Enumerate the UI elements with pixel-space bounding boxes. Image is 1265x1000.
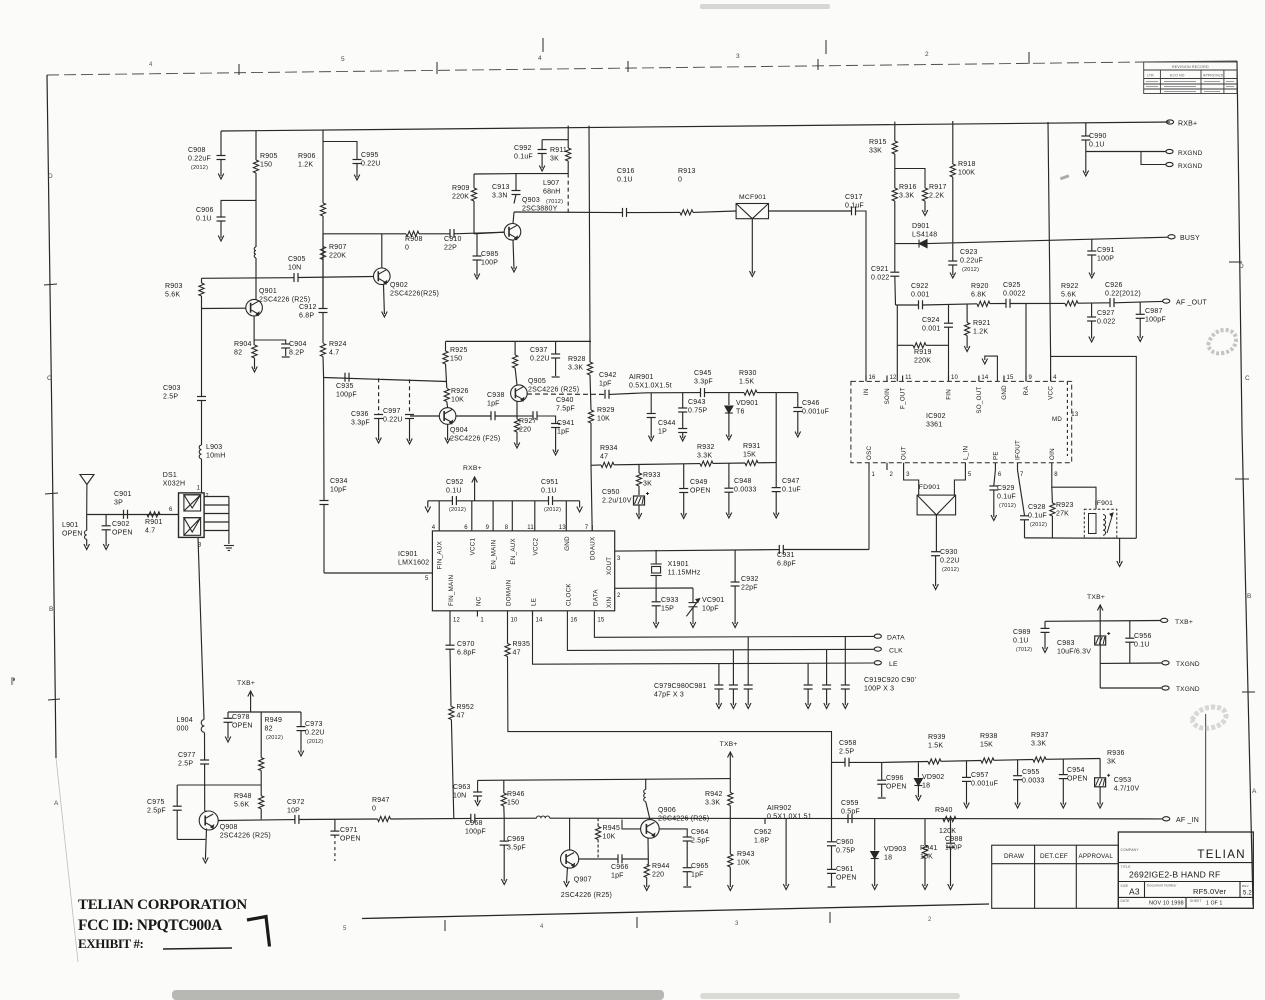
svg-text:10mH: 10mH bbox=[206, 453, 225, 460]
wire C992 bbox=[542, 139, 568, 141]
svg-text:C944: C944 bbox=[658, 420, 676, 427]
svg-text:R931: R931 bbox=[743, 443, 761, 450]
wire RXGND1 bbox=[1086, 151, 1166, 153]
svg-text:C961: C961 bbox=[836, 866, 854, 873]
wire C919 trio bbox=[844, 637, 846, 685]
resistor R945 bbox=[596, 827, 601, 840]
svg-text:9: 9 bbox=[1029, 375, 1033, 381]
svg-text:R909: R909 bbox=[452, 185, 470, 192]
svg-text:TXGND: TXGND bbox=[1176, 661, 1200, 668]
wire bbox=[831, 819, 833, 842]
wire bbox=[1129, 642, 1131, 663]
wire bbox=[1078, 302, 1110, 304]
border bottom frame bbox=[362, 904, 989, 919]
svg-text:1.2K: 1.2K bbox=[298, 162, 313, 169]
svg-text:R941: R941 bbox=[920, 845, 938, 852]
svg-text:C992: C992 bbox=[514, 145, 532, 152]
svg-text:C941: C941 bbox=[557, 420, 575, 427]
IC902 pin 2 stub bbox=[886, 463, 888, 470]
wire R905 bbox=[255, 131, 257, 160]
ground bbox=[843, 703, 849, 709]
wire bbox=[882, 761, 928, 764]
wire bbox=[1017, 780, 1019, 805]
resistor R905 bbox=[253, 160, 258, 173]
svg-text:0.1uF: 0.1uF bbox=[782, 487, 801, 494]
wire bbox=[476, 260, 478, 276]
wire bbox=[1051, 516, 1053, 538]
wire bbox=[693, 211, 736, 212]
svg-text:6.8pF: 6.8pF bbox=[457, 650, 476, 657]
svg-text:C906: C906 bbox=[196, 207, 214, 214]
svg-text:3K: 3K bbox=[550, 156, 559, 163]
svg-text:X032H: X032H bbox=[163, 481, 185, 488]
svg-text:A3: A3 bbox=[1129, 887, 1140, 897]
svg-text:15P: 15P bbox=[661, 606, 674, 613]
capacitor C950 bbox=[634, 492, 650, 505]
transistor Q907 bbox=[561, 850, 579, 868]
svg-text:APPROVAL: APPROVAL bbox=[1079, 853, 1114, 860]
wire R919 bbox=[897, 344, 913, 346]
svg-text:B: B bbox=[1247, 593, 1252, 600]
svg-text:Q904: Q904 bbox=[450, 427, 468, 434]
svg-text:0.75P: 0.75P bbox=[688, 408, 707, 415]
inductor L901 bbox=[84, 531, 86, 540]
svg-text:(2012): (2012) bbox=[1030, 522, 1047, 528]
wire bbox=[503, 806, 505, 818]
capacitor C948 bbox=[724, 488, 733, 492]
svg-text:R920: R920 bbox=[971, 283, 989, 290]
svg-text:C964: C964 bbox=[691, 829, 709, 836]
wire bbox=[1011, 302, 1066, 304]
capacitor C919 bbox=[804, 685, 813, 689]
ground bbox=[252, 367, 258, 373]
wire C973 bbox=[300, 712, 302, 726]
svg-text:R922: R922 bbox=[1061, 283, 1079, 290]
wire TXGND2 bbox=[1100, 687, 1162, 689]
svg-text:C927: C927 bbox=[1097, 310, 1115, 317]
wire pin stub up bbox=[534, 501, 536, 525]
wire GND pin hook bbox=[985, 356, 998, 381]
svg-text:R904: R904 bbox=[234, 341, 252, 348]
capacitor C961 bbox=[827, 869, 836, 873]
svg-text:5: 5 bbox=[968, 472, 972, 478]
wire bbox=[1085, 140, 1087, 173]
wire bbox=[718, 689, 720, 705]
svg-text:18: 18 bbox=[922, 783, 930, 790]
capacitor C968 bbox=[471, 814, 475, 823]
wire C995 bbox=[323, 142, 357, 160]
svg-text:C997: C997 bbox=[383, 408, 401, 415]
wire bbox=[966, 336, 968, 349]
wire C932 bbox=[734, 550, 736, 582]
svg-text:000: 000 bbox=[177, 726, 189, 733]
wire R944 bbox=[647, 859, 649, 865]
resistor R952 bbox=[449, 707, 454, 720]
svg-text:FIN_AUX: FIN_AUX bbox=[437, 541, 444, 569]
svg-text:XIN: XIN bbox=[606, 597, 613, 608]
zone tick right bbox=[1229, 261, 1242, 263]
wire TXB vertical bbox=[1099, 605, 1101, 688]
svg-text:C950: C950 bbox=[602, 489, 620, 496]
ground arrow bbox=[982, 359, 988, 365]
wire bbox=[950, 847, 952, 886]
svg-text:L_IN: L_IN bbox=[962, 446, 969, 460]
ground bbox=[382, 312, 388, 318]
svg-text:LS4148: LS4148 bbox=[912, 232, 937, 239]
wire bbox=[334, 835, 336, 861]
wire FIN pin bbox=[948, 327, 950, 381]
wire bbox=[923, 304, 977, 305]
svg-text:MD: MD bbox=[1052, 416, 1062, 423]
resistor R941 bbox=[922, 845, 927, 858]
IC902 pin 9 stub bbox=[1025, 376, 1027, 382]
svg-text:FD901: FD901 bbox=[919, 484, 940, 491]
terminal RXGND 2 bbox=[1166, 162, 1173, 166]
wire RXGND2 bbox=[1141, 152, 1166, 165]
capacitor C955 bbox=[1013, 776, 1022, 780]
svg-text:14: 14 bbox=[981, 375, 989, 381]
ground bbox=[922, 210, 928, 216]
wire bbox=[614, 464, 700, 465]
svg-text:0.001uF: 0.001uF bbox=[802, 409, 829, 416]
inductor L906 bbox=[644, 790, 646, 802]
wire C908 bbox=[220, 131, 222, 155]
svg-text:IN: IN bbox=[863, 388, 870, 395]
svg-text:10: 10 bbox=[951, 375, 959, 381]
wire pin stub up bbox=[471, 501, 473, 525]
wire C949 bbox=[683, 464, 685, 488]
wire Q905 collector bbox=[514, 341, 516, 355]
svg-text:1 OF 1: 1 OF 1 bbox=[1206, 901, 1223, 907]
capacitor C945 bbox=[701, 388, 705, 397]
capacitor C921 bbox=[890, 272, 899, 276]
capacitor C980 bbox=[729, 685, 738, 689]
svg-text:C952: C952 bbox=[446, 479, 464, 486]
svg-text:0.1U: 0.1U bbox=[196, 216, 212, 223]
IC901 pin 8 stub bbox=[511, 525, 513, 531]
zone tick left bbox=[45, 493, 58, 494]
svg-text:11.15MHz: 11.15MHz bbox=[668, 570, 701, 577]
wire VD902 bbox=[917, 762, 919, 777]
capacitor C990 bbox=[1081, 136, 1090, 140]
svg-text:10N: 10N bbox=[288, 265, 301, 272]
resistor R903 bbox=[199, 283, 204, 296]
wire bbox=[935, 556, 937, 586]
svg-text:0.22U: 0.22U bbox=[940, 558, 960, 565]
svg-text:150: 150 bbox=[450, 356, 462, 363]
svg-text:BUSY: BUSY bbox=[1180, 235, 1200, 242]
wire XIN line bbox=[615, 587, 693, 589]
wire bbox=[1139, 318, 1141, 338]
svg-text:2SC4226(R25): 2SC4226(R25) bbox=[390, 291, 439, 298]
wire bbox=[260, 809, 262, 820]
wire C948 bbox=[728, 463, 730, 488]
svg-text:C995: C995 bbox=[361, 152, 379, 159]
svg-text:4: 4 bbox=[1053, 375, 1057, 381]
svg-text:1pF: 1pF bbox=[691, 872, 704, 879]
wire R945 bbox=[597, 818, 599, 826]
wire C929 bbox=[994, 470, 996, 486]
svg-text:100pF: 100pF bbox=[465, 829, 486, 836]
wire bbox=[538, 416, 556, 423]
wire C947 bbox=[775, 463, 777, 488]
svg-text:R918: R918 bbox=[958, 161, 976, 168]
wire bbox=[952, 265, 954, 275]
svg-text:LMX1602: LMX1602 bbox=[398, 560, 429, 567]
wire C955 bbox=[1017, 760, 1019, 775]
wire C946 bbox=[776, 392, 798, 394]
wire Q903 base bbox=[474, 232, 504, 234]
svg-text:R924: R924 bbox=[329, 341, 347, 348]
wire DS1 pin bbox=[204, 513, 229, 515]
wire C935 line bbox=[324, 378, 447, 382]
svg-text:C989: C989 bbox=[1013, 629, 1031, 636]
svg-text:3K: 3K bbox=[643, 481, 652, 488]
resistor R917 bbox=[922, 188, 927, 201]
svg-text:0.001uF: 0.001uF bbox=[971, 781, 998, 788]
wire bbox=[503, 780, 505, 793]
wire pin stub up bbox=[438, 501, 440, 525]
svg-text:Q908: Q908 bbox=[220, 824, 238, 831]
svg-text:0.22U: 0.22U bbox=[305, 730, 325, 737]
wire bbox=[356, 164, 358, 178]
wire C912 bbox=[322, 234, 324, 308]
svg-text:(7012): (7012) bbox=[1016, 647, 1032, 653]
svg-text:R930: R930 bbox=[739, 370, 757, 377]
top edge smear bbox=[700, 4, 830, 9]
svg-text:CLK: CLK bbox=[889, 648, 903, 655]
svg-text:100P: 100P bbox=[1097, 256, 1114, 263]
svg-text:6: 6 bbox=[169, 507, 173, 513]
svg-text:4.7: 4.7 bbox=[145, 528, 155, 535]
ground bbox=[964, 346, 970, 352]
wire C943 bbox=[682, 393, 684, 408]
svg-text:3: 3 bbox=[735, 921, 739, 927]
wire R923 bbox=[1051, 487, 1054, 503]
transistor Q906 bbox=[641, 820, 660, 839]
wire DS1 pin bbox=[204, 521, 229, 523]
ground bbox=[354, 175, 360, 181]
wire Q906 base bbox=[622, 820, 641, 829]
wire bbox=[994, 759, 1033, 762]
capacitor C949 bbox=[679, 489, 688, 493]
wire bbox=[550, 817, 1163, 820]
zone tick left bbox=[44, 284, 57, 285]
svg-text:VD902: VD902 bbox=[922, 774, 944, 781]
svg-text:C954: C954 bbox=[1067, 767, 1085, 774]
capacitor C910 bbox=[450, 229, 454, 238]
svg-text:2: 2 bbox=[890, 472, 894, 478]
wire bbox=[881, 784, 883, 797]
svg-text:1.8P: 1.8P bbox=[754, 838, 769, 845]
transistor Q902 bbox=[374, 268, 391, 285]
capacitor C966 bbox=[618, 854, 622, 863]
svg-text:C: C bbox=[1245, 375, 1250, 382]
ground bbox=[539, 166, 545, 172]
svg-text:0.0022: 0.0022 bbox=[1003, 291, 1026, 298]
capacitor C934 bbox=[320, 501, 329, 505]
capacitor C929 bbox=[989, 486, 998, 490]
ground bbox=[805, 703, 811, 709]
wire bbox=[457, 500, 549, 502]
svg-text:D: D bbox=[48, 173, 53, 180]
resistor R931 bbox=[745, 460, 758, 465]
capacitor C956 bbox=[1125, 638, 1134, 642]
wire OSC bbox=[868, 470, 870, 550]
zone tick left bbox=[48, 699, 60, 700]
wire bbox=[713, 462, 745, 464]
svg-text:OPEN: OPEN bbox=[112, 530, 133, 537]
wire L907 bbox=[567, 174, 569, 213]
wire bbox=[427, 501, 429, 508]
svg-text:C936: C936 bbox=[351, 411, 369, 418]
svg-text:C949: C949 bbox=[690, 479, 708, 486]
svg-text:2692IGE2-B HAND RF: 2692IGE2-B HAND RF bbox=[1129, 870, 1220, 880]
IC902 pin 12 stub bbox=[886, 376, 888, 382]
svg-text:C969: C969 bbox=[507, 836, 525, 843]
IC902 pin 5 stub bbox=[964, 463, 966, 470]
svg-text:Q903: Q903 bbox=[522, 197, 540, 204]
capacitor C901 bbox=[124, 510, 128, 519]
svg-text:C996: C996 bbox=[886, 775, 904, 782]
capacitor C922 bbox=[919, 300, 923, 309]
svg-text:2SC4226 (R25): 2SC4226 (R25) bbox=[658, 816, 709, 823]
wire DS1 ground bus bbox=[228, 497, 230, 545]
wire D901 bbox=[895, 243, 919, 245]
svg-text:C973: C973 bbox=[305, 721, 323, 728]
border right bbox=[1237, 61, 1253, 905]
bottom edge smear 2 bbox=[700, 993, 960, 999]
resistor R929 bbox=[588, 410, 593, 423]
svg-text:C985: C985 bbox=[481, 251, 499, 258]
ground bbox=[636, 513, 642, 519]
wire bbox=[409, 419, 411, 442]
wire C988 bbox=[950, 819, 952, 843]
svg-text:6: 6 bbox=[998, 472, 1002, 478]
wire bbox=[475, 817, 536, 819]
svg-text:8: 8 bbox=[505, 525, 509, 531]
wire bbox=[952, 177, 954, 244]
wire pin stub up bbox=[511, 501, 513, 525]
svg-text:22P: 22P bbox=[444, 245, 457, 252]
svg-text:3.3K: 3.3K bbox=[705, 800, 720, 807]
IC902 pin 4 stub bbox=[1050, 376, 1052, 382]
svg-text:10K: 10K bbox=[603, 834, 616, 841]
filter MCF901 bbox=[736, 204, 768, 219]
svg-text:2: 2 bbox=[928, 917, 932, 923]
svg-text:2SC4226 (R25): 2SC4226 (R25) bbox=[528, 387, 579, 394]
svg-text:C: C bbox=[47, 375, 52, 382]
svg-text:R917: R917 bbox=[929, 184, 947, 191]
transistor Q904 bbox=[439, 408, 456, 425]
capacitor C902 bbox=[102, 526, 111, 530]
svg-text:2.2u/10V: 2.2u/10V bbox=[602, 498, 632, 505]
svg-text:R942: R942 bbox=[705, 791, 723, 798]
wire bbox=[496, 415, 518, 417]
svg-text:(2012): (2012) bbox=[942, 567, 959, 573]
svg-text:9: 9 bbox=[486, 525, 490, 531]
svg-text:220: 220 bbox=[652, 872, 664, 879]
diode VD903 bbox=[871, 852, 879, 859]
svg-text:C983: C983 bbox=[1057, 640, 1075, 647]
inductor L904 bbox=[201, 720, 204, 733]
resistor R916 bbox=[892, 188, 897, 201]
scan artifact blob 2 bbox=[1192, 707, 1226, 728]
wire bbox=[450, 649, 451, 706]
wire R941 bbox=[924, 819, 926, 845]
svg-text:8: 8 bbox=[1054, 472, 1058, 478]
svg-text:OPEN: OPEN bbox=[232, 723, 253, 730]
wire bbox=[285, 348, 287, 356]
svg-text:10pF: 10pF bbox=[702, 606, 719, 613]
svg-text:VCC: VCC bbox=[1048, 386, 1055, 400]
wire C969 bbox=[503, 818, 505, 840]
svg-text:A: A bbox=[1252, 788, 1257, 795]
capacitor C938 bbox=[491, 411, 495, 420]
svg-text:TXGND: TXGND bbox=[1176, 686, 1200, 693]
capacitor C977 bbox=[200, 760, 209, 764]
capacitor C987 bbox=[1136, 314, 1145, 318]
resistor R933 bbox=[636, 473, 641, 486]
wire R903 bbox=[201, 278, 203, 283]
svg-text:3P: 3P bbox=[114, 500, 123, 507]
svg-text:2SC4226 (R25): 2SC4226 (R25) bbox=[259, 297, 310, 304]
svg-text:TXB+: TXB+ bbox=[720, 741, 738, 748]
ground bbox=[1015, 803, 1021, 809]
svg-text:10K: 10K bbox=[451, 397, 464, 404]
svg-text:R928: R928 bbox=[568, 356, 586, 363]
svg-text:15K: 15K bbox=[980, 742, 993, 749]
capacitor C933 bbox=[652, 602, 661, 606]
svg-text:OPEN: OPEN bbox=[340, 836, 361, 843]
wire antenna line bbox=[87, 514, 179, 516]
svg-text:2.2K: 2.2K bbox=[929, 193, 944, 200]
resistor R927 bbox=[514, 419, 519, 432]
svg-text:(2012): (2012) bbox=[266, 735, 283, 741]
supply arrow TXB+ left bbox=[248, 691, 254, 697]
wire bbox=[966, 781, 968, 804]
wire C970 bbox=[449, 611, 451, 645]
wire bbox=[477, 796, 479, 802]
wire bbox=[729, 867, 731, 887]
capacitor C958 bbox=[845, 758, 849, 767]
IC901 pin 7 stub bbox=[591, 525, 593, 531]
svg-text:0.022: 0.022 bbox=[1097, 319, 1116, 326]
svg-text:13: 13 bbox=[1071, 412, 1079, 418]
svg-text:R913: R913 bbox=[678, 168, 696, 175]
svg-text:R919: R919 bbox=[914, 349, 932, 356]
wire C996 bbox=[881, 762, 883, 779]
resistor R906 bbox=[320, 203, 325, 216]
svg-text:C963: C963 bbox=[453, 784, 471, 791]
svg-text:IC901: IC901 bbox=[398, 551, 418, 558]
svg-text:4: 4 bbox=[149, 62, 153, 68]
svg-text:1P: 1P bbox=[658, 429, 667, 436]
svg-text:C935: C935 bbox=[336, 383, 354, 390]
svg-text:0.22uF: 0.22uF bbox=[960, 258, 983, 265]
IC901 pin 14 stub bbox=[532, 611, 534, 617]
svg-text:4: 4 bbox=[540, 924, 544, 930]
wire TX line bbox=[218, 819, 295, 822]
wire bbox=[541, 140, 543, 149]
zone tick right bbox=[1235, 478, 1249, 480]
wire bbox=[1062, 779, 1064, 805]
wire Q907 base bbox=[579, 858, 598, 860]
capacitor C995 bbox=[353, 160, 362, 164]
wire VD901 bbox=[728, 393, 730, 405]
svg-text:AF _OUT: AF _OUT bbox=[1176, 300, 1207, 307]
svg-text:27K: 27K bbox=[1056, 511, 1069, 518]
